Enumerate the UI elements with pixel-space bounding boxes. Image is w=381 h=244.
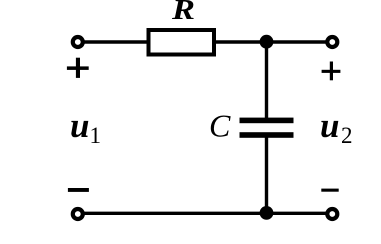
capacitor C bottom plate <box>240 132 294 138</box>
resistor R body <box>149 30 215 55</box>
minus sign right <box>321 189 338 192</box>
svg-text:u: u <box>70 106 89 145</box>
wire bottom rail: input terminal to output terminal <box>82 212 328 215</box>
terminal bottom-right <box>327 209 337 219</box>
terminal top-right <box>327 37 337 47</box>
capacitor C top plate <box>240 118 294 124</box>
plus sign right <box>322 62 341 81</box>
terminal bottom-left <box>73 209 83 219</box>
wire: node A down to capacitor top plate <box>265 42 268 119</box>
node B junction dot <box>260 206 274 220</box>
wire top-middle: resistor to node A <box>214 40 266 43</box>
label u2 <box>320 106 353 148</box>
terminal top-left <box>73 37 83 47</box>
wire: capacitor bottom plate down to node B <box>265 136 268 214</box>
label u1 <box>70 106 101 148</box>
node A junction dot <box>260 35 274 49</box>
svg-text:C: C <box>209 108 231 144</box>
svg-text:2: 2 <box>341 123 353 148</box>
plus sign left <box>67 58 89 78</box>
minus sign left <box>68 188 89 192</box>
svg-text:R: R <box>171 0 195 26</box>
wire top-right: node A to output terminal <box>266 40 328 43</box>
svg-text:1: 1 <box>90 123 102 148</box>
svg-text:u: u <box>320 106 339 145</box>
wire top-left: input terminal to resistor <box>82 40 150 43</box>
